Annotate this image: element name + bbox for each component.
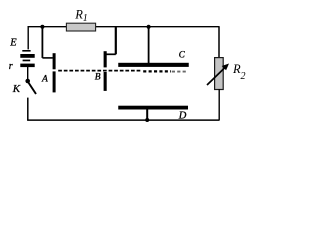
svg-text:B: B: [95, 72, 101, 82]
wire left vertical upper: [27, 27, 29, 50]
rheostat R2 arrow head: [222, 64, 229, 71]
junction dot node to plate C: [147, 25, 151, 29]
rheostat R2 arrow shaft: [207, 68, 225, 86]
wire battery to switch pivot: [27, 67, 29, 80]
svg-text:2: 2: [241, 71, 246, 82]
svg-text:r: r: [9, 61, 13, 72]
wire connector to plate B: [107, 53, 116, 55]
plate C: [118, 63, 189, 67]
wire drop to plate A: [41, 27, 43, 58]
plate D: [118, 106, 188, 110]
electron beam dashed line between C and D: [143, 70, 171, 72]
wire top horizontal: [28, 26, 220, 28]
wire connector to plate A: [42, 57, 52, 59]
junction dot plate D to bottom wire: [145, 118, 149, 122]
svg-text:E: E: [9, 38, 17, 49]
battery cell plate thin 1: [22, 50, 30, 52]
plate B upper segment: [104, 51, 107, 67]
wire switch lower contact: [27, 98, 29, 120]
wire right vertical lower: [218, 89, 220, 121]
battery cell plate thin 2: [23, 60, 31, 62]
svg-text:1: 1: [83, 13, 88, 24]
svg-text:K: K: [12, 83, 21, 95]
wire drop from plate D: [146, 109, 148, 120]
plate B lower segment: [104, 72, 107, 91]
electron beam dashed line fading tail: [172, 71, 187, 73]
battery cell plate thick 1: [20, 54, 34, 58]
wire right vertical upper: [218, 26, 220, 58]
svg-text:D: D: [178, 111, 187, 122]
wire bottom horizontal: [27, 119, 219, 121]
resistor R1: [66, 23, 95, 31]
switch pivot dot: [25, 79, 30, 84]
electron beam dashed line: [58, 70, 140, 72]
plate A lower segment: [53, 71, 56, 92]
wire drop to plate B: [115, 27, 117, 54]
svg-text:A: A: [41, 74, 48, 84]
switch K blade: [28, 82, 36, 94]
svg-text:C: C: [179, 49, 186, 59]
plate A upper segment: [53, 53, 56, 69]
rheostat R2 body: [215, 58, 224, 90]
wire drop to plate C: [148, 27, 150, 63]
junction dot node to plate A: [40, 25, 44, 29]
battery cell plate thick 2: [20, 64, 34, 68]
